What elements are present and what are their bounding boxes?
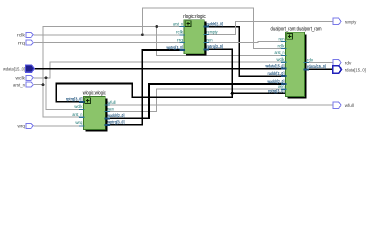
- port wfull (output): [333, 102, 354, 109]
- svg-text:wptrg[3..0]: wptrg[3..0]: [166, 45, 184, 50]
- node arst_n junction 1: [42, 83, 45, 86]
- svg-text:arst_n: arst_n: [275, 50, 286, 55]
- op block rlogic U2: [183, 14, 206, 56]
- svg-text:dualport_ram:dualport_ram: dualport_ram:dualport_ram: [271, 26, 322, 32]
- wire rclk net: [34, 8, 281, 49]
- svg-text:wlogic:wlogic: wlogic:wlogic: [83, 91, 106, 97]
- pin dualport arst_n: [275, 50, 287, 55]
- svg-text:rclk: rclk: [278, 43, 286, 48]
- pin dualport wen: [278, 84, 286, 89]
- wire rdata bus: [307, 68, 333, 70]
- svg-text:wen: wen: [108, 106, 115, 111]
- pin rlogic rrq: [177, 37, 185, 42]
- svg-text:ren: ren: [279, 36, 286, 41]
- pin wlogic arst_n: [72, 112, 84, 117]
- svg-text:arst_n: arst_n: [72, 112, 83, 117]
- svg-text:rptrg[3..0]: rptrg[3..0]: [268, 89, 285, 94]
- pin dualport wdata[15..0]: [265, 63, 287, 68]
- svg-text:arst_n: arst_n: [13, 82, 25, 88]
- pin dualport rptrg[3..0]: [268, 89, 285, 94]
- port rdata[15..0] (output bus): [333, 66, 366, 74]
- port rclk (input): [17, 32, 33, 38]
- svg-text:wfull: wfull: [345, 103, 354, 109]
- svg-text:rrq: rrq: [177, 37, 184, 42]
- svg-text:rclk: rclk: [17, 33, 26, 39]
- pin wlogic rptrg[3..0]: [66, 97, 84, 102]
- wire ren net: [204, 41, 281, 44]
- svg-text:wfull: wfull: [108, 100, 116, 105]
- op block wlogic U1: [83, 91, 108, 132]
- svg-text:rptrg[3..0]: rptrg[3..0]: [207, 44, 224, 49]
- svg-text:wclk: wclk: [16, 76, 26, 82]
- wire wfull net: [110, 104, 333, 106]
- op block dualport_ram U3: [271, 26, 322, 98]
- svg-text:rptrg[3..0]: rptrg[3..0]: [66, 97, 83, 102]
- wire rdv net: [307, 62, 333, 64]
- wire waddr bus: [110, 84, 282, 118]
- wire arst_n net: [34, 27, 281, 118]
- wire raddr bus: [204, 27, 281, 77]
- pin wlogic wfull: [104, 100, 115, 105]
- wire wen net: [110, 89, 282, 111]
- pin wlogic waddr[2..0]: [104, 113, 125, 118]
- port wclk (input): [16, 75, 34, 81]
- svg-text:rrq: rrq: [18, 40, 25, 46]
- port wdata[15..0] (input bus): [3, 65, 34, 73]
- pin dualport waddr[2..0]: [267, 79, 287, 84]
- pin dualport raddr[2..0]: [268, 71, 287, 76]
- wire rempty net: [204, 21, 333, 34]
- pin dualport rdata[15..0]: [304, 64, 327, 69]
- svg-text:rdv: rdv: [345, 61, 352, 67]
- svg-text:raddr[2..0]: raddr[2..0]: [268, 71, 286, 76]
- wire rrq net: [34, 42, 184, 44]
- port rdv (output): [333, 59, 352, 66]
- node wclk junction: [45, 76, 48, 79]
- svg-text:wdata[15..0]: wdata[15..0]: [3, 66, 25, 72]
- wire rptrg bus: [56, 49, 232, 101]
- svg-text:wrq: wrq: [75, 120, 83, 125]
- pin rlogic rptrg[3..0]: [203, 44, 223, 49]
- pin wlogic wclk: [74, 104, 84, 109]
- svg-text:rclk: rclk: [176, 30, 184, 35]
- pin dualport ren: [279, 36, 287, 41]
- svg-text:wptrg[3..0]: wptrg[3..0]: [107, 120, 125, 125]
- pin rlogic ren: [203, 37, 213, 42]
- pin rlogic rclk: [176, 30, 185, 35]
- pin wlogic wrq: [75, 120, 84, 126]
- pin rlogic raddr[2..0]: [203, 21, 223, 26]
- svg-text:ren: ren: [207, 37, 214, 42]
- svg-text:rempty: rempty: [345, 19, 357, 25]
- wire wclk net: [34, 62, 281, 109]
- svg-text:wrq: wrq: [18, 124, 26, 130]
- pin dualport rclk: [278, 43, 287, 48]
- svg-text:rdata[15..0]: rdata[15..0]: [307, 64, 327, 69]
- svg-text:arst_n: arst_n: [173, 21, 184, 26]
- wire wdata bus: [34, 68, 281, 70]
- pin rlogic rempty: [203, 29, 218, 34]
- pin rlogic wptrg[3..0]: [166, 45, 185, 50]
- svg-text:rdata[15..0]: rdata[15..0]: [345, 67, 366, 73]
- port rempty (output): [333, 18, 357, 25]
- svg-text:rdv: rdv: [307, 57, 314, 62]
- svg-text:wclk: wclk: [277, 57, 286, 62]
- wire wrq net: [34, 125, 79, 127]
- svg-text:rlogic:rlogic: rlogic:rlogic: [183, 14, 206, 20]
- pin dualport wclk: [277, 57, 287, 62]
- pin wlogic wptrg[3..0]: [104, 120, 125, 125]
- svg-text:raddr[2..0]: raddr[2..0]: [207, 21, 224, 26]
- port rrq (input): [18, 40, 33, 46]
- svg-text:wclk: wclk: [74, 104, 83, 109]
- svg-text:waddr[2..0]: waddr[2..0]: [107, 113, 125, 118]
- svg-text:rempty: rempty: [207, 29, 219, 34]
- port wrq (input): [18, 123, 34, 129]
- svg-text:wdata[15..0]: wdata[15..0]: [265, 63, 285, 68]
- pin dualport rdv: [304, 57, 314, 62]
- wire wptrg bus: [110, 50, 180, 125]
- node arst_n junction 2: [155, 25, 158, 28]
- port arst_n (input): [13, 82, 33, 88]
- pin wlogic wen: [104, 106, 114, 111]
- pin rlogic arst_n: [173, 21, 185, 26]
- node rclk junction: [141, 33, 144, 36]
